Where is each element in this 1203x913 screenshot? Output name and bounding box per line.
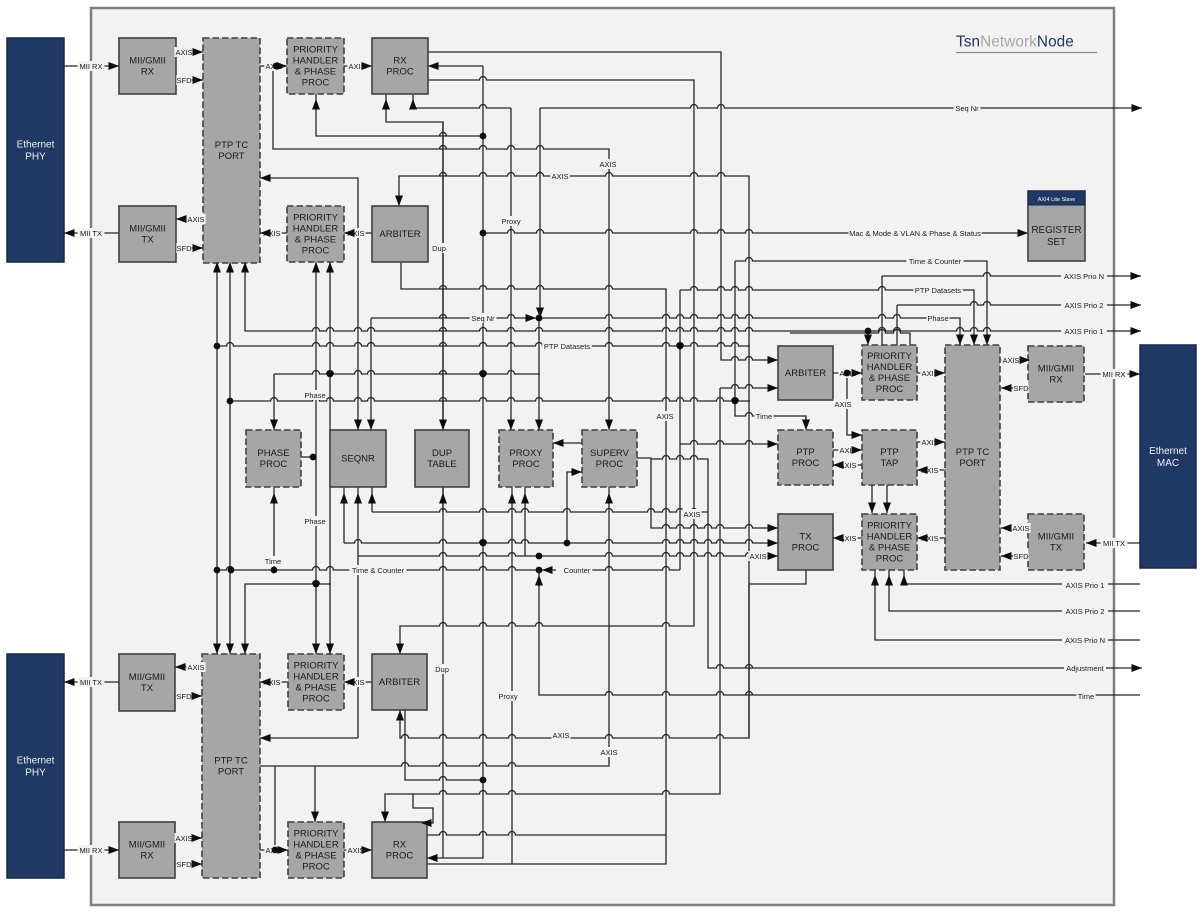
svg-text:PROC: PROC <box>386 67 414 78</box>
svg-text:PHY: PHY <box>25 152 46 163</box>
svg-text:SFD: SFD <box>177 692 193 701</box>
svg-text:HANDLER: HANDLER <box>293 56 339 67</box>
svg-text:HANDLER: HANDLER <box>293 224 339 235</box>
svg-text:HANDLER: HANDLER <box>293 672 339 683</box>
svg-text:MII TX: MII TX <box>1103 539 1125 548</box>
svg-text:MII/GMII: MII/GMII <box>129 224 165 235</box>
svg-text:Dup: Dup <box>435 665 449 674</box>
svg-text:PTP TC: PTP TC <box>214 756 248 767</box>
svg-text:AXIS: AXIS <box>187 663 204 672</box>
svg-text:PROC: PROC <box>512 459 540 470</box>
svg-text:AXIS: AXIS <box>656 412 673 421</box>
svg-text:PROXY: PROXY <box>509 448 543 459</box>
svg-text:Time & Counter: Time & Counter <box>909 257 962 266</box>
svg-text:MII RX: MII RX <box>80 846 103 855</box>
svg-text:Phase: Phase <box>927 314 948 323</box>
svg-text:PTP: PTP <box>796 447 814 458</box>
svg-text:PROC: PROC <box>876 554 904 565</box>
svg-text:SFD: SFD <box>1014 552 1030 561</box>
svg-text:Counter: Counter <box>564 566 591 575</box>
svg-text:TsnNetworkNode: TsnNetworkNode <box>956 34 1074 51</box>
svg-text:PORT: PORT <box>218 151 244 162</box>
svg-text:AXIS: AXIS <box>175 48 192 57</box>
svg-text:AXIS: AXIS <box>187 215 204 224</box>
svg-text:PROC: PROC <box>876 384 904 395</box>
svg-text:TABLE: TABLE <box>427 459 456 470</box>
svg-text:AXIS: AXIS <box>834 400 851 409</box>
svg-text:Time & Counter: Time & Counter <box>352 566 405 575</box>
svg-text:AXIS Prio 1: AXIS Prio 1 <box>1066 581 1105 590</box>
svg-text:Proxy: Proxy <box>501 217 520 226</box>
svg-text:SFD: SFD <box>177 244 193 253</box>
svg-text:PROC: PROC <box>386 851 414 862</box>
svg-text:PHY: PHY <box>25 768 46 779</box>
svg-text:PHASE: PHASE <box>257 448 289 459</box>
svg-text:AXIS: AXIS <box>599 160 616 169</box>
svg-text:PROC: PROC <box>792 458 820 469</box>
svg-text:PRIORITY: PRIORITY <box>867 521 913 532</box>
svg-text:Mac & Mode & VLAN & Phase & St: Mac & Mode & VLAN & Phase & Status <box>849 229 981 238</box>
svg-text:TX: TX <box>141 683 154 694</box>
svg-text:REGISTER: REGISTER <box>1031 225 1081 236</box>
svg-text:RX: RX <box>140 851 154 862</box>
svg-text:PROC: PROC <box>302 246 330 257</box>
svg-text:MII/GMII: MII/GMII <box>1038 364 1074 375</box>
svg-text:MII/GMII: MII/GMII <box>129 56 165 67</box>
svg-text:PORT: PORT <box>218 767 244 778</box>
svg-text:AXIS Prio 2: AXIS Prio 2 <box>1065 301 1104 310</box>
svg-text:HANDLER: HANDLER <box>867 532 913 543</box>
svg-text:Seq Nr: Seq Nr <box>955 104 979 113</box>
svg-text:AXI4 Lite Slave: AXI4 Lite Slave <box>1038 197 1076 203</box>
svg-text:PTP TC: PTP TC <box>956 447 990 458</box>
svg-text:HANDLER: HANDLER <box>867 362 913 373</box>
svg-text:RX: RX <box>1049 375 1063 386</box>
svg-text:AXIS Prio 1: AXIS Prio 1 <box>1065 327 1104 336</box>
svg-text:MII TX: MII TX <box>80 678 102 687</box>
svg-text:TX: TX <box>141 235 154 246</box>
svg-text:SUPERV: SUPERV <box>590 448 630 459</box>
svg-text:AXIS: AXIS <box>1002 356 1019 365</box>
svg-text:SFD: SFD <box>1014 384 1030 393</box>
svg-text:Ethernet: Ethernet <box>17 140 55 151</box>
svg-text:SFD: SFD <box>177 76 193 85</box>
svg-text:RX: RX <box>141 67 155 78</box>
svg-text:AXIS Prio N: AXIS Prio N <box>1065 636 1105 645</box>
svg-text:Phase: Phase <box>304 517 325 526</box>
svg-text:ARBITER: ARBITER <box>379 229 420 240</box>
svg-text:PRIORITY: PRIORITY <box>294 661 340 672</box>
svg-text:PTP Datasets: PTP Datasets <box>915 286 961 295</box>
svg-text:PRIORITY: PRIORITY <box>867 351 913 362</box>
svg-text:Ethernet: Ethernet <box>17 756 55 767</box>
svg-text:& PHASE: & PHASE <box>295 851 336 862</box>
svg-text:HANDLER: HANDLER <box>293 840 339 851</box>
svg-text:PRIORITY: PRIORITY <box>294 829 340 840</box>
svg-text:MII TX: MII TX <box>80 229 102 238</box>
svg-text:MII/GMII: MII/GMII <box>129 840 165 851</box>
svg-text:PRIORITY: PRIORITY <box>293 45 339 56</box>
svg-text:Adjustment: Adjustment <box>1066 664 1104 673</box>
svg-text:AXIS: AXIS <box>175 834 192 843</box>
svg-text:Time: Time <box>1078 692 1094 701</box>
svg-text:SET: SET <box>1047 237 1066 248</box>
svg-text:SEQNR: SEQNR <box>341 454 375 465</box>
svg-text:TX: TX <box>1050 543 1063 554</box>
svg-text:& PHASE: & PHASE <box>295 67 336 78</box>
svg-text:AXIS: AXIS <box>551 172 568 181</box>
svg-text:PROC: PROC <box>260 459 288 470</box>
svg-text:RX: RX <box>393 56 407 67</box>
svg-text:PROC: PROC <box>792 543 820 554</box>
svg-text:TAP: TAP <box>881 458 899 469</box>
svg-text:& PHASE: & PHASE <box>869 373 910 384</box>
svg-text:PTP: PTP <box>880 447 898 458</box>
svg-text:Ethernet: Ethernet <box>1149 446 1187 457</box>
svg-text:PROC: PROC <box>302 78 330 89</box>
svg-text:PROC: PROC <box>302 694 330 705</box>
svg-text:Time: Time <box>756 412 772 421</box>
svg-text:PROC: PROC <box>596 459 624 470</box>
svg-text:MAC: MAC <box>1157 458 1179 469</box>
svg-text:PROC: PROC <box>302 862 330 873</box>
svg-text:MII/GMII: MII/GMII <box>129 672 165 683</box>
svg-text:MII/GMII: MII/GMII <box>1038 532 1074 543</box>
svg-text:AXIS Prio 2: AXIS Prio 2 <box>1066 607 1105 616</box>
svg-text:SFD: SFD <box>177 860 193 869</box>
svg-text:RX: RX <box>393 840 407 851</box>
svg-text:& PHASE: & PHASE <box>295 683 336 694</box>
svg-text:ARBITER: ARBITER <box>785 368 826 379</box>
svg-text:AXIS: AXIS <box>683 510 700 519</box>
svg-text:PTP TC: PTP TC <box>215 140 249 151</box>
svg-text:& PHASE: & PHASE <box>295 235 336 246</box>
svg-text:AXIS: AXIS <box>600 748 617 757</box>
svg-text:Proxy: Proxy <box>498 692 517 701</box>
svg-text:& PHASE: & PHASE <box>869 543 910 554</box>
svg-text:DUP: DUP <box>432 448 452 459</box>
svg-text:ARBITER: ARBITER <box>379 677 420 688</box>
svg-text:Dup: Dup <box>432 244 446 253</box>
svg-text:Seq Nr: Seq Nr <box>471 314 495 323</box>
svg-text:MII RX: MII RX <box>1103 370 1126 379</box>
svg-text:MII RX: MII RX <box>80 62 103 71</box>
svg-text:TX: TX <box>799 532 812 543</box>
svg-text:AXIS: AXIS <box>1012 524 1029 533</box>
svg-text:Time: Time <box>265 557 281 566</box>
svg-text:AXIS: AXIS <box>749 552 766 561</box>
svg-text:AXIS: AXIS <box>552 731 569 740</box>
svg-text:AXIS Prio N: AXIS Prio N <box>1064 272 1104 281</box>
svg-text:PTP Datasets: PTP Datasets <box>544 342 590 351</box>
svg-text:Phase: Phase <box>304 391 325 400</box>
svg-text:PORT: PORT <box>959 458 985 469</box>
svg-text:PRIORITY: PRIORITY <box>293 213 339 224</box>
